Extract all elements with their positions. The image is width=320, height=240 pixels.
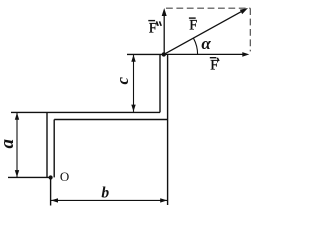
wire: dashed horizontal construction line <box>166 7 250 9</box>
wire: extension below O <box>50 177 52 205</box>
wire: left bar inner line <box>53 120 55 178</box>
force F (resultant) <box>164 11 243 54</box>
node: dimension b <box>51 199 168 201</box>
wire: right bar right line + b-dim extension <box>167 54 169 205</box>
wire: dashed vertical construction line <box>249 8 251 51</box>
node: dimension c <box>133 54 135 112</box>
svg-text:F: F <box>189 17 197 33</box>
force F'' (vertical component) <box>163 15 165 54</box>
wire: right bar left line <box>159 54 161 112</box>
svg-text:α: α <box>201 34 211 53</box>
svg-text:F: F <box>149 20 157 36</box>
svg-text:c: c <box>113 76 132 84</box>
svg-text:F: F <box>210 57 218 73</box>
wire: bottom tick at O level <box>8 176 51 178</box>
svg-text:b: b <box>101 185 109 202</box>
wire: c-dim tick through junction <box>127 53 164 55</box>
wire: left bar outer line <box>46 112 48 177</box>
node O <box>49 175 53 179</box>
force F' (horizontal component) <box>164 53 244 55</box>
svg-text:a: a <box>0 139 18 149</box>
node: angle alpha arc <box>194 38 198 54</box>
node: force application point <box>162 52 166 56</box>
svg-text:O: O <box>60 169 69 184</box>
wire: bar top line + a-dim extension <box>11 111 160 113</box>
wire: bar bottom line <box>54 119 167 121</box>
node: dimension a <box>16 112 18 177</box>
